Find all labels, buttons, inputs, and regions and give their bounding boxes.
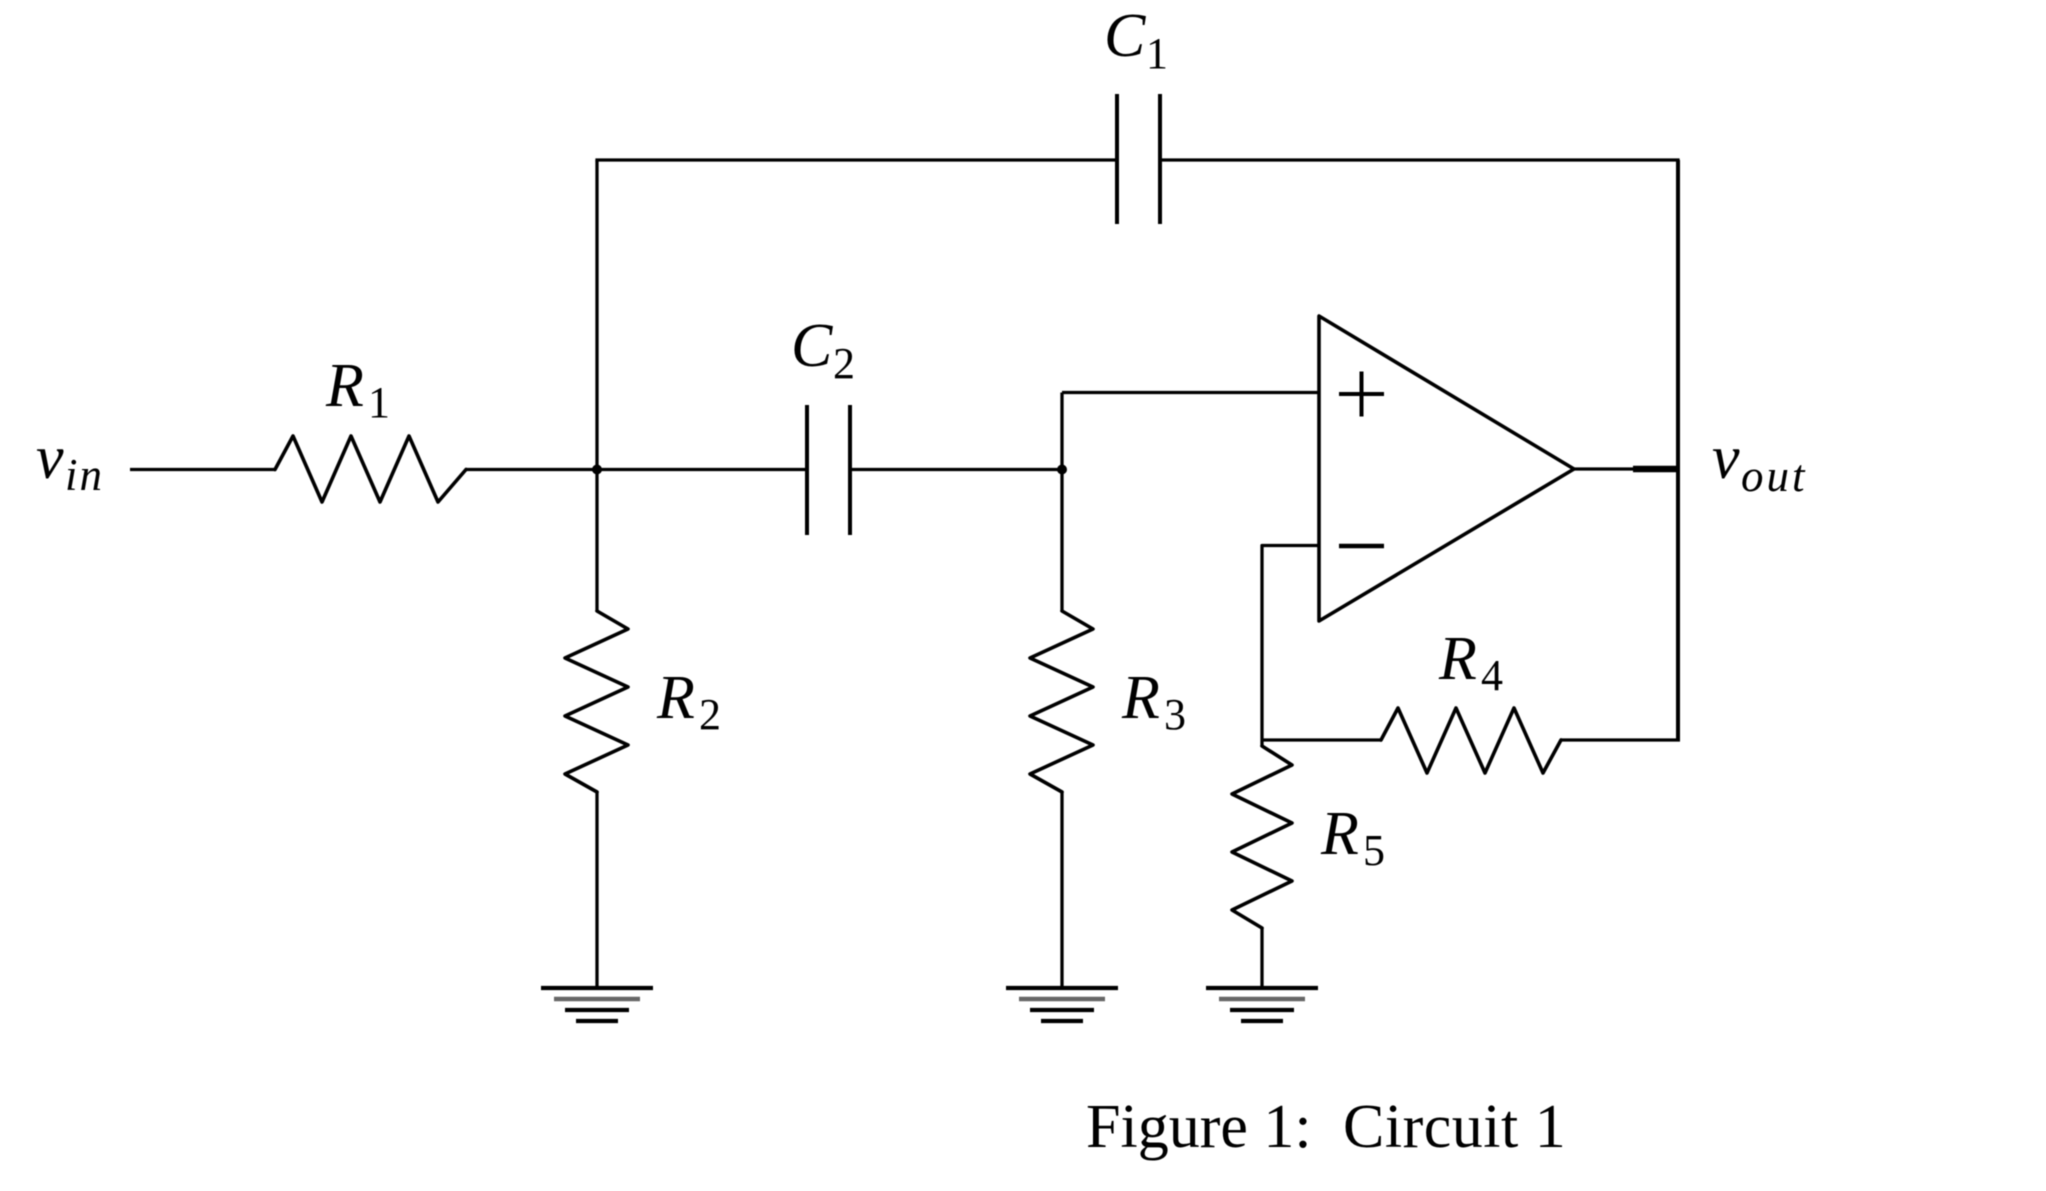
capacitor C1: [1117, 94, 1160, 224]
capacitor C2: [807, 405, 850, 535]
node A junction dot: [592, 465, 602, 475]
svg-text:out: out: [1741, 451, 1808, 501]
wire right rail down to vout and R4: [1676, 160, 1680, 740]
label R1: [325, 352, 390, 427]
wire node A up to top rail: [595, 160, 598, 611]
svg-text:Circuit 1: Circuit 1: [1343, 1093, 1566, 1161]
svg-text:v: v: [36, 424, 64, 492]
op-amp minus sign: [1339, 544, 1384, 549]
wire top rail left segment: [595, 158, 1117, 161]
ground G3: [1206, 988, 1318, 1021]
label R2: [656, 664, 721, 739]
node B junction dot: [1057, 465, 1067, 475]
svg-text:3: 3: [1164, 690, 1186, 739]
node vin label: [36, 424, 104, 500]
wire to op-amp + input: [1062, 391, 1319, 394]
svg-text:5: 5: [1363, 826, 1385, 875]
resistor R5: [1232, 746, 1292, 928]
wire R5 to ground: [1260, 928, 1263, 986]
wire R4 left lead: [1262, 738, 1381, 741]
ground G2: [1006, 988, 1118, 1021]
svg-text:2: 2: [699, 690, 721, 739]
resistor R3: [1030, 611, 1093, 792]
wire node B vertical (up to + lead, down to R3): [1060, 393, 1063, 612]
svg-text:C: C: [791, 312, 833, 380]
svg-text:R: R: [1320, 800, 1359, 868]
label R5: [1320, 800, 1385, 875]
svg-text:in: in: [65, 450, 104, 500]
svg-text:C: C: [1104, 2, 1146, 70]
node vout label: [1712, 424, 1808, 501]
svg-text:2: 2: [833, 339, 855, 388]
svg-text:R: R: [1121, 664, 1160, 732]
label C1: [1104, 2, 1168, 78]
label C2: [791, 312, 855, 388]
wire op-amp - input: [1262, 546, 1319, 747]
resistor R2: [565, 611, 628, 792]
wire vout node thick lead: [1633, 466, 1679, 473]
caption Figure 1: Circuit 1: [1086, 1093, 1566, 1161]
svg-text:1: 1: [1146, 29, 1168, 78]
op-amp plus sign: [1339, 372, 1384, 417]
label R4: [1438, 625, 1503, 700]
svg-text:R: R: [656, 664, 695, 732]
resistor R4: [1381, 708, 1561, 773]
wire R3 to ground: [1060, 792, 1063, 986]
ground G1: [541, 988, 653, 1021]
svg-text:1: 1: [368, 378, 390, 427]
wire vin to R1: [130, 468, 275, 471]
svg-text:Figure 1:: Figure 1:: [1086, 1093, 1312, 1161]
svg-text:v: v: [1712, 424, 1740, 492]
op-amp U1: [1319, 316, 1574, 621]
wire C2 to node B: [850, 468, 1062, 471]
wire top rail right segment: [1160, 158, 1680, 161]
svg-text:R: R: [325, 352, 364, 420]
wire R4 right lead: [1561, 738, 1680, 741]
svg-text:R: R: [1438, 625, 1477, 693]
label R3: [1121, 664, 1186, 739]
wire op-amp output to vout node: [1574, 467, 1678, 470]
resistor R1: [275, 436, 466, 502]
svg-text:4: 4: [1481, 651, 1503, 700]
wire R1 to C2 (through node A): [466, 468, 807, 471]
wire R2 to ground: [595, 792, 598, 987]
